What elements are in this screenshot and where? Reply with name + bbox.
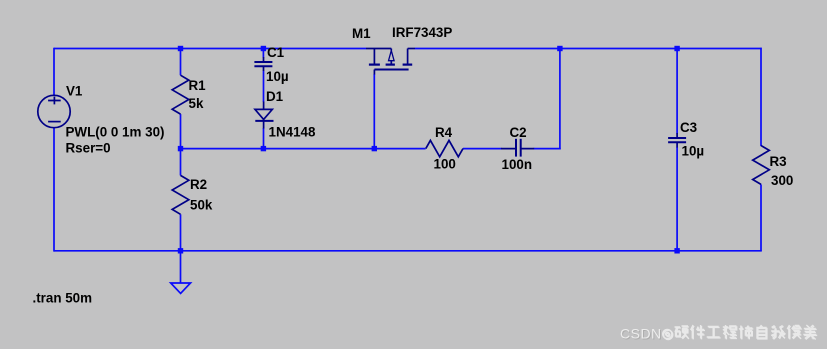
wire: R2 bottom stub <box>180 214 182 251</box>
ground <box>171 283 191 293</box>
junction dot: D1 mid rail <box>261 146 266 151</box>
label 50k value of R2 <box>190 198 213 213</box>
wire: left rail upper (top rail down to V1 top) <box>53 48 55 96</box>
junction dot: gate mid rail <box>372 146 377 151</box>
junction dot: drain node top rail <box>557 46 562 51</box>
wire: ground stem <box>180 251 182 283</box>
label R1 <box>189 78 207 93</box>
junction dot: ground bottom rail <box>178 248 183 253</box>
svg-text:300: 300 <box>771 173 793 188</box>
mosfet M1 <box>366 49 415 75</box>
svg-text:10µ: 10µ <box>266 69 289 84</box>
label R2 <box>190 177 207 192</box>
char gong (work) <box>707 327 720 338</box>
svg-text:R4: R4 <box>435 125 453 140</box>
junction dot: C1 top rail <box>261 46 266 51</box>
svg-text:10µ: 10µ <box>682 144 705 159</box>
label Rser=0 of V1 <box>66 141 111 156</box>
wire: C3 bottom stem <box>676 147 678 251</box>
wire: bottom rail <box>54 250 762 252</box>
resistor R4 <box>426 140 463 156</box>
watermark CSDN @hardware-engineer-self-cultivation <box>620 325 817 343</box>
wire: C1 bottom to D1 top <box>263 71 265 103</box>
char jian (piece) <box>691 325 705 339</box>
svg-text:5k: 5k <box>189 96 204 111</box>
svg-text:100n: 100n <box>502 157 533 172</box>
label M1 <box>352 26 371 41</box>
wire: top rail left (V1+ to M1 source) <box>54 48 366 50</box>
label R4 <box>435 125 453 140</box>
junction dot: R1/R2 mid rail <box>178 146 183 151</box>
wire: R1 bottom stub <box>180 114 182 149</box>
char shi (master) <box>739 326 753 339</box>
label R3 <box>770 154 787 169</box>
wire: R1 top stub <box>180 49 182 76</box>
svg-text:C3: C3 <box>680 120 697 135</box>
junction dot: C3 bottom rail <box>674 248 679 253</box>
label IRF7343P value of M1 <box>392 25 452 40</box>
svg-text:CSDN: CSDN <box>620 326 662 342</box>
svg-text:1N4148: 1N4148 <box>269 125 316 140</box>
junction dot: R1 top rail <box>178 46 183 51</box>
char cheng (journey) <box>723 325 736 339</box>
label PWL value of V1 <box>66 125 165 140</box>
label 10u value of C1 <box>266 69 289 84</box>
label 100 value of R4 <box>434 156 456 171</box>
resistor R2 <box>172 175 189 214</box>
label 10u value of C3 <box>682 144 705 159</box>
wire: M1 gate down to mid rail <box>373 74 375 149</box>
svg-text:R3: R3 <box>770 154 787 169</box>
label 1N4148 value of D1 <box>269 125 316 140</box>
svg-text:100: 100 <box>434 156 456 171</box>
svg-text:50k: 50k <box>190 198 213 213</box>
wire: mid rail segment C2 to corner <box>534 148 561 150</box>
label C2 <box>510 125 527 140</box>
wire: mid rail segment R4 to C2 <box>463 148 502 150</box>
svg-text:R2: R2 <box>190 177 207 192</box>
diode D1 <box>255 102 274 129</box>
char ying (hard) <box>675 326 689 338</box>
char yang (nurture) <box>803 325 816 339</box>
wire: C3 top stem <box>676 49 678 134</box>
svg-text:V1: V1 <box>66 84 83 99</box>
wire: vertical from corner up to top rail (M1 drain node) <box>559 48 561 150</box>
svg-text:.tran 50m: .tran 50m <box>33 291 93 306</box>
wire: mid rail left segment (R2 node to R4) <box>181 148 426 150</box>
char wo (me) <box>771 326 785 339</box>
label 100n value of C2 <box>502 157 533 172</box>
resistor R1 <box>172 75 189 114</box>
capacitor C3 <box>668 133 686 148</box>
voltage source V1 <box>38 95 70 127</box>
wire: R2 top stub <box>180 149 182 176</box>
svg-text:M1: M1 <box>352 26 371 41</box>
svg-text:Rser=0: Rser=0 <box>66 141 111 156</box>
char xiu (cultivate) <box>787 325 800 339</box>
wire: D1 cathode to mid rail <box>263 128 265 149</box>
svg-text:IRF7343P: IRF7343P <box>392 25 452 40</box>
junction dot: C3 top rail <box>674 46 679 51</box>
wire: right rail lower (R3 to bottom rail) <box>760 184 762 250</box>
svg-text:PWL(0 0 1m 30): PWL(0 0 1m 30) <box>66 125 165 140</box>
svg-text:C1: C1 <box>267 45 285 60</box>
capacitor C1 <box>254 57 272 71</box>
svg-text:R1: R1 <box>189 78 207 93</box>
@ icon <box>663 329 672 338</box>
wire: left rail lower (V1 bottom to bottom rail) <box>53 128 55 252</box>
label 5k value of R1 <box>189 96 204 111</box>
label C3 <box>680 120 697 135</box>
label 300 value of R3 <box>771 173 793 188</box>
svg-text:C2: C2 <box>510 125 527 140</box>
label V1 <box>66 84 83 99</box>
char zi (self) <box>757 325 766 338</box>
wire: right rail upper (top rail to R3) <box>760 48 762 146</box>
svg-text:D1: D1 <box>266 89 284 104</box>
resistor R3 <box>753 146 770 185</box>
wire: C1 top stem <box>262 49 264 58</box>
capacitor C2 <box>501 139 534 157</box>
label C1 <box>267 45 285 60</box>
wire: top rail right (M1 drain to top-right corner) <box>415 48 762 50</box>
label D1 <box>266 89 284 104</box>
spice directive .tran 50m <box>33 291 93 306</box>
